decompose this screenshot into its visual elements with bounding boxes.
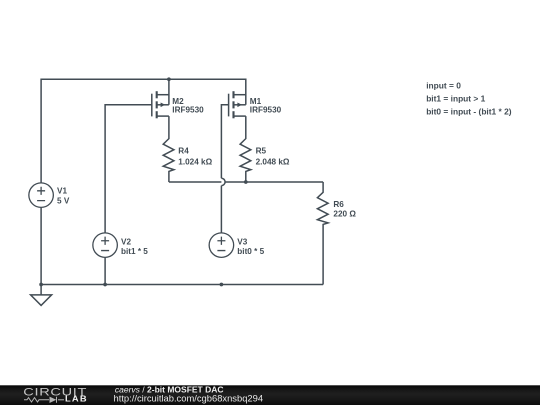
- svg-text:V3: V3: [237, 238, 247, 247]
- svg-text:IRF9530: IRF9530: [172, 106, 204, 115]
- svg-text:M1: M1: [250, 97, 262, 106]
- svg-text:R4: R4: [178, 147, 189, 156]
- svg-text:R5: R5: [256, 147, 267, 156]
- svg-text:input = 0: input = 0: [426, 80, 461, 90]
- svg-text:http://circuitlab.com/cgb68xns: http://circuitlab.com/cgb68xnsbq294: [114, 392, 264, 403]
- svg-text:5 V: 5 V: [57, 196, 70, 205]
- svg-text:bit1 = input > 1: bit1 = input > 1: [426, 94, 485, 104]
- svg-text:bit0 = input - (bit1 * 2): bit0 = input - (bit1 * 2): [426, 107, 512, 117]
- svg-text:2.048 kΩ: 2.048 kΩ: [256, 157, 290, 166]
- svg-text:bit0 * 5: bit0 * 5: [237, 247, 264, 256]
- svg-text:V2: V2: [121, 238, 131, 247]
- svg-text:220 Ω: 220 Ω: [333, 210, 356, 219]
- svg-text:IRF9530: IRF9530: [250, 106, 282, 115]
- svg-text:V1: V1: [57, 186, 67, 195]
- svg-text:M2: M2: [172, 97, 184, 106]
- svg-text:LAB: LAB: [65, 395, 88, 404]
- svg-text:bit1 * 5: bit1 * 5: [121, 247, 148, 256]
- svg-text:R6: R6: [333, 200, 344, 209]
- svg-text:1.024 kΩ: 1.024 kΩ: [178, 157, 212, 166]
